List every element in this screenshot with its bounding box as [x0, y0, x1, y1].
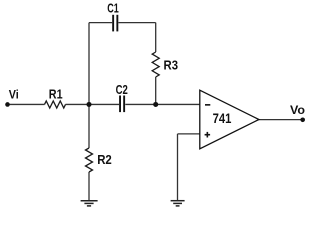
svg-text:C1: C1	[107, 1, 119, 16]
svg-text:Vi: Vi	[9, 87, 19, 101]
svg-text:R1: R1	[49, 86, 63, 101]
svg-text:R2: R2	[97, 152, 112, 167]
svg-text:741: 741	[213, 111, 232, 126]
svg-text:R3: R3	[164, 58, 179, 73]
svg-text:C2: C2	[116, 82, 128, 97]
svg-text:Vo: Vo	[290, 103, 305, 117]
